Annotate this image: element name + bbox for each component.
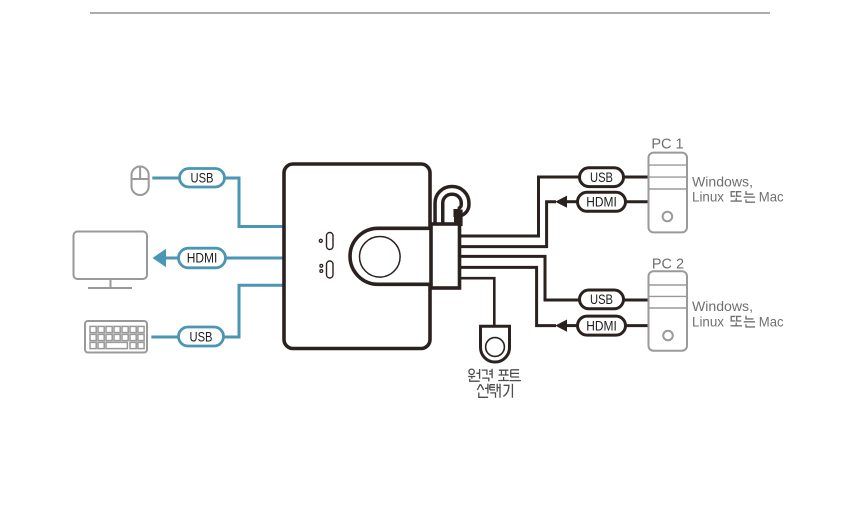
wire C switch to PC2 USB bbox=[459, 256, 581, 300]
는 bbox=[744, 191, 755, 202]
mouse icon bbox=[132, 167, 149, 196]
keyboard keys row1 bbox=[90, 326, 144, 332]
top rule bbox=[90, 12, 770, 14]
svg-text:USB: USB bbox=[590, 292, 613, 307]
svg-text:Windows,: Windows, bbox=[692, 298, 753, 314]
svg-text:Mac: Mac bbox=[759, 189, 784, 205]
arrow into PC2 HDMI wire bbox=[555, 320, 567, 332]
wire USB pill1 to switch (elbow) bbox=[224, 178, 285, 227]
USB port icon 1 (one dot) bbox=[319, 233, 333, 250]
glyph 선 bbox=[477, 384, 488, 398]
PC1 tower bbox=[649, 153, 688, 233]
HDMI pill left bbox=[179, 248, 226, 268]
label Windows Linux Mac PC1 bbox=[692, 173, 784, 204]
또 bbox=[731, 192, 741, 197]
svg-text:PC 2: PC 2 bbox=[652, 256, 684, 272]
svg-text:PC 1: PC 1 bbox=[651, 137, 683, 153]
label 선택기 (drawn glyphs) bbox=[477, 384, 512, 398]
connector housing bbox=[431, 224, 460, 288]
HDMI pill PC1 bbox=[578, 192, 626, 211]
svg-text:USB: USB bbox=[191, 170, 214, 185]
svg-text:Linux: Linux bbox=[692, 313, 724, 329]
cable hook loop bbox=[439, 190, 465, 226]
svg-text:HDMI: HDMI bbox=[586, 195, 617, 210]
wire mouse to USB pill bbox=[152, 177, 181, 180]
USB pill left-bottom bbox=[179, 327, 224, 346]
wire keyboard to USB pill bbox=[151, 336, 181, 339]
wire A switch to PC1 USB bbox=[459, 177, 581, 236]
glyph 트 bbox=[510, 370, 521, 381]
USB pill PC1 bbox=[580, 168, 624, 187]
wire USB pill PC2 to tower bbox=[624, 299, 649, 302]
glyph 택 bbox=[490, 384, 500, 398]
glyph 포 bbox=[498, 370, 509, 380]
glyph 원 bbox=[468, 369, 480, 381]
또는 glyphs PC2 bbox=[731, 316, 756, 327]
cable connector stadium with circle bbox=[350, 228, 444, 284]
HDMI pill PC2 bbox=[578, 316, 626, 335]
label PC 1 bbox=[651, 137, 683, 153]
USB port icon 2 (two dots) bbox=[320, 261, 333, 278]
wire HDMI pill to monitor arrow bbox=[164, 257, 181, 260]
monitor icon bbox=[74, 232, 148, 289]
remote port selector bbox=[481, 326, 510, 362]
wire arrow to HDMI pill PC2 bbox=[567, 324, 580, 327]
wire USB pill2 to switch (elbow up) bbox=[223, 285, 285, 337]
또는 glyphs PC1 bbox=[731, 191, 756, 202]
keyboard keys row3 with spacebar bbox=[90, 342, 144, 348]
USB pill PC2 bbox=[580, 290, 624, 309]
label 원격 포트 (drawn glyphs) bbox=[468, 369, 521, 382]
svg-text:Mac: Mac bbox=[759, 313, 784, 329]
svg-text:USB: USB bbox=[590, 170, 613, 185]
svg-text:Windows,: Windows, bbox=[692, 173, 753, 189]
svg-text:HDMI: HDMI bbox=[187, 251, 218, 266]
또 bbox=[731, 316, 741, 321]
keyboard keys row2 bbox=[90, 334, 144, 340]
glyph 기 bbox=[503, 384, 512, 398]
label Windows Linux Mac PC2 bbox=[692, 298, 784, 329]
wire D switch to PC2 HDMI bbox=[459, 267, 556, 325]
wire USB pill PC1 to tower bbox=[624, 176, 649, 179]
svg-text:HDMI: HDMI bbox=[586, 318, 617, 333]
wire arrow to HDMI pill PC1 bbox=[567, 200, 580, 203]
svg-text:Linux: Linux bbox=[692, 189, 724, 205]
wire to remote selector bbox=[459, 278, 494, 327]
는 bbox=[744, 316, 755, 327]
wire HDMI pill to switch bbox=[224, 257, 285, 260]
wire B switch to PC1 HDMI bbox=[459, 202, 556, 247]
keyboard icon bbox=[85, 321, 147, 353]
arrow to monitor bbox=[153, 249, 167, 267]
USB pill left-top bbox=[180, 169, 225, 188]
wire HDMI pill PC1 to tower bbox=[626, 200, 649, 203]
PC2 tower bbox=[649, 271, 688, 351]
glyph 격 bbox=[482, 369, 492, 382]
arrow into PC1 HDMI wire bbox=[555, 196, 567, 208]
KVM switch body bbox=[284, 164, 430, 349]
svg-text:USB: USB bbox=[190, 329, 213, 344]
label PC 2 bbox=[652, 256, 684, 272]
wire HDMI pill PC2 to tower bbox=[626, 324, 649, 327]
